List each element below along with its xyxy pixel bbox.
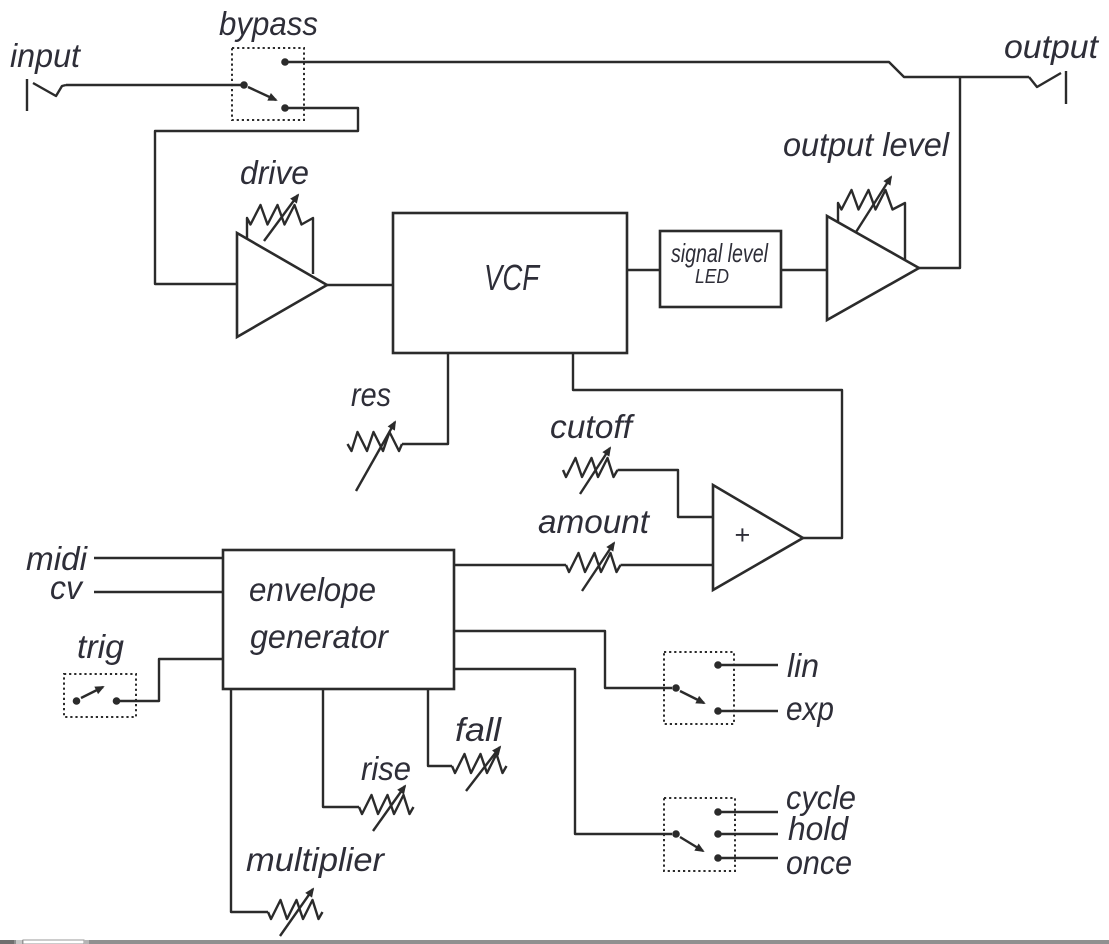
svg-text:VCF: VCF: [484, 257, 541, 298]
input jack J1: [27, 79, 66, 111]
node bypass common pole: [240, 81, 248, 89]
svg-text:output level: output level: [783, 126, 951, 163]
node cho common pole: [672, 830, 680, 838]
node bypass throw down: [281, 104, 289, 112]
potentiometer rise zigzag: [359, 795, 414, 814]
wire envelope out to amount pot: [454, 564, 566, 566]
wire envelope out to cycle switch: [454, 669, 672, 834]
svg-text:LED: LED: [695, 266, 729, 288]
wire cutoff to sum amp: [618, 470, 714, 517]
svg-text:fall: fall: [455, 711, 503, 748]
block signal level LED: [660, 231, 781, 307]
svg-text:cutoff: cutoff: [550, 408, 636, 445]
scrollbar thumb: [23, 940, 84, 944]
cho switch arm arrow: [680, 837, 703, 851]
node trig throw: [113, 697, 121, 705]
svg-text:res: res: [351, 376, 391, 413]
switch SW4 cycle-hold-once dotted box: [664, 798, 735, 871]
potentiometer res arrow: [356, 422, 395, 491]
node lin throw: [714, 661, 722, 669]
output jack J2: [1029, 71, 1066, 104]
svg-text:exp: exp: [786, 690, 834, 727]
wire input to bypass common: [66, 84, 244, 86]
wire envelope to multiplier pot: [231, 689, 268, 912]
wire envelope to fall pot: [428, 689, 452, 766]
potentiometer cutoff arrow: [580, 448, 610, 494]
node trig pole: [73, 697, 81, 705]
svg-text:lin: lin: [787, 647, 819, 684]
wire hold: [718, 833, 778, 835]
block VCF: [393, 213, 627, 353]
wire output amp to output node: [919, 77, 960, 268]
potentiometer rise arrow: [373, 786, 405, 831]
svg-text:generator: generator: [250, 618, 390, 655]
op-amp U1 drive: [237, 233, 327, 337]
wire lin: [718, 664, 778, 666]
scrollbar corner button: [0, 940, 14, 944]
potentiometer multiplier zigzag: [268, 900, 323, 919]
potentiometer amount zigzag: [566, 553, 621, 572]
svg-text:envelope: envelope: [249, 571, 376, 608]
svg-text:+: +: [734, 520, 750, 550]
potentiometer drive arrow: [264, 195, 298, 241]
op-amp U2 output level: [827, 216, 919, 320]
node bypass throw up: [281, 58, 289, 66]
switch SW3 lin-exp dotted box: [664, 652, 734, 724]
svg-text:hold: hold: [788, 810, 850, 847]
svg-text:bypass: bypass: [219, 5, 318, 42]
switch SW2 trig dotted box: [64, 674, 136, 717]
svg-text:trig: trig: [77, 628, 125, 665]
svg-text:input: input: [10, 37, 82, 74]
svg-text:multiplier: multiplier: [246, 841, 386, 878]
potentiometer amount arrow: [582, 543, 614, 591]
wire sum amp output to VCF cv input: [573, 353, 842, 538]
svg-text:rise: rise: [361, 750, 411, 787]
wire bypass throw up to output: [285, 62, 1029, 77]
op-amp U3 summer: [713, 485, 803, 590]
potentiometer multiplier arrow: [280, 889, 313, 936]
svg-text:signal level: signal level: [671, 238, 769, 268]
svg-text:cv: cv: [50, 569, 84, 606]
scrollbar track: [0, 940, 1109, 944]
wire trig to envelope generator: [117, 659, 224, 701]
svg-text:output: output: [1004, 28, 1100, 65]
node linexp common pole: [672, 684, 680, 692]
wire LED to output amp: [781, 269, 827, 271]
trig switch arm arrow: [81, 687, 103, 698]
bypass switch arm arrow: [248, 87, 276, 100]
potentiometer fall zigzag: [452, 754, 507, 773]
wire VCF res drop: [402, 353, 448, 444]
node once throw: [714, 854, 722, 862]
wire envelope to rise pot: [323, 689, 359, 807]
wire envelope out to lin-exp switch: [454, 631, 672, 688]
node hold throw: [714, 830, 722, 838]
scrollbar button2: [16, 940, 22, 944]
wire amount pot to sum amp: [621, 564, 714, 566]
node cycle throw: [714, 808, 722, 816]
switch SW1 bypass dotted box: [232, 48, 304, 120]
wire cv input: [94, 591, 223, 593]
potentiometer fall arrow: [466, 747, 500, 791]
svg-text:once: once: [786, 844, 852, 881]
wire cycle: [718, 811, 778, 813]
wire VCF to signal level LED: [627, 269, 660, 271]
wire drive amp to VCF: [327, 284, 393, 286]
wire bypass throw down to drive amp input: [155, 108, 358, 284]
potentiometer res zigzag: [348, 432, 403, 451]
potentiometer output level arrow: [856, 177, 891, 232]
scrollbar small box: [84, 940, 89, 944]
potentiometer output level: bump and zigzag: [838, 190, 905, 260]
linexp switch arm arrow: [680, 691, 704, 703]
svg-text:drive: drive: [240, 154, 309, 191]
wire exp: [718, 710, 778, 712]
potentiometer cutoff zigzag: [563, 458, 618, 477]
potentiometer drive: bump and zigzag: [247, 205, 313, 274]
wire midi input: [94, 557, 223, 559]
block envelope generator: [223, 550, 454, 689]
node exp throw: [714, 707, 722, 715]
wire once: [718, 857, 778, 859]
svg-text:amount: amount: [538, 503, 651, 540]
